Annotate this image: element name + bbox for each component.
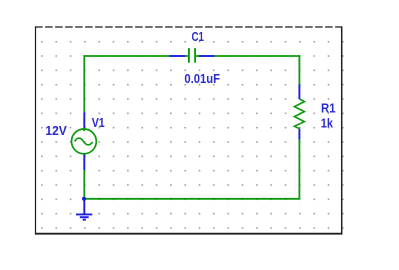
wire bottom horizontal segment	[84, 198, 299, 200]
wire top-right horizontal segment	[214, 55, 299, 57]
junction node	[82, 197, 86, 201]
value 1k	[321, 116, 333, 130]
value 0.01uF	[184, 72, 220, 86]
label C1	[192, 30, 204, 44]
svg-text:C1: C1	[192, 30, 204, 44]
svg-text:12V: 12V	[45, 124, 67, 138]
label V1	[92, 116, 105, 130]
svg-text:0.01uF: 0.01uF	[184, 72, 220, 86]
label R1	[321, 101, 336, 115]
voltage source V1	[72, 112, 97, 170]
wire left vertical segment (top wire to V1 pin)	[83, 55, 85, 112]
svg-text:V1: V1	[92, 116, 105, 130]
wire right vertical segment (top wire to R1 pin)	[298, 55, 300, 84]
value 12V	[45, 124, 67, 138]
ground	[76, 199, 92, 220]
resistor R1	[294, 84, 304, 139]
svg-text:1k: 1k	[321, 116, 333, 130]
wire right vertical segment (R1 bottom pin to bottom wire)	[298, 140, 300, 199]
svg-text:R1: R1	[321, 101, 336, 115]
wire left vertical segment (V1 bottom pin to junction)	[83, 170, 85, 199]
wire top-left corner horizontal segment	[84, 55, 169, 57]
capacitor C1	[169, 48, 214, 63]
